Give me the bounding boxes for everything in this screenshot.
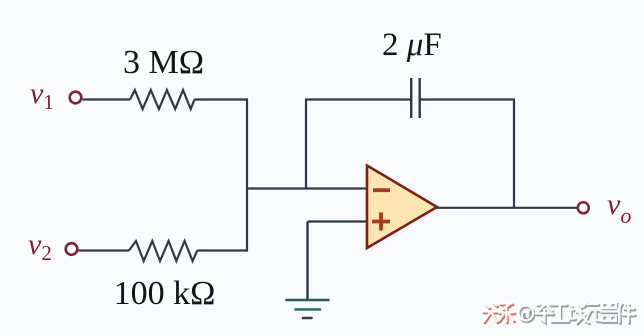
svg-text:3 MΩ: 3 MΩ bbox=[123, 44, 204, 81]
wire noninverting input bbox=[308, 220, 368, 222]
input terminal v2 bbox=[66, 243, 78, 255]
wire output bbox=[436, 207, 578, 209]
wire feedback top left bbox=[305, 98, 411, 100]
wire inverting input bbox=[246, 187, 367, 189]
minus sign (inverting input) bbox=[373, 188, 390, 192]
wire feedback right vertical bbox=[513, 100, 515, 208]
value label 3 MΩ bbox=[123, 44, 204, 81]
capacitor C1 bbox=[411, 78, 420, 118]
node label v2 bbox=[28, 228, 52, 265]
wire feedback left vertical bbox=[305, 100, 307, 189]
input terminal v1 bbox=[70, 92, 82, 104]
svg-text:2 μF: 2 μF bbox=[382, 27, 442, 63]
node label vo bbox=[607, 188, 631, 228]
plus sign (noninverting input) bbox=[372, 212, 390, 230]
wire v1 to R1 bbox=[83, 98, 131, 100]
op-amp U1 bbox=[367, 166, 437, 249]
wire ground drop bbox=[306, 222, 308, 300]
node label v1 bbox=[30, 77, 54, 114]
wire R2 to junction bbox=[197, 249, 248, 251]
wire feedback top right bbox=[420, 98, 515, 100]
watermark 头条@李工谈元器件 (drawn as shapes) bbox=[483, 302, 636, 324]
output terminal vo bbox=[578, 202, 589, 213]
svg-text:100 kΩ: 100 kΩ bbox=[114, 275, 216, 312]
wire junction vertical (summing node) bbox=[246, 98, 248, 250]
value label 100 kΩ bbox=[114, 275, 216, 312]
wire v2 to R2 bbox=[79, 249, 130, 251]
resistor R1 bbox=[130, 90, 195, 109]
ground bbox=[287, 300, 329, 318]
value label 2 μF bbox=[382, 27, 442, 63]
resistor R2 bbox=[129, 241, 197, 261]
wire R1 to junction bbox=[195, 98, 249, 100]
